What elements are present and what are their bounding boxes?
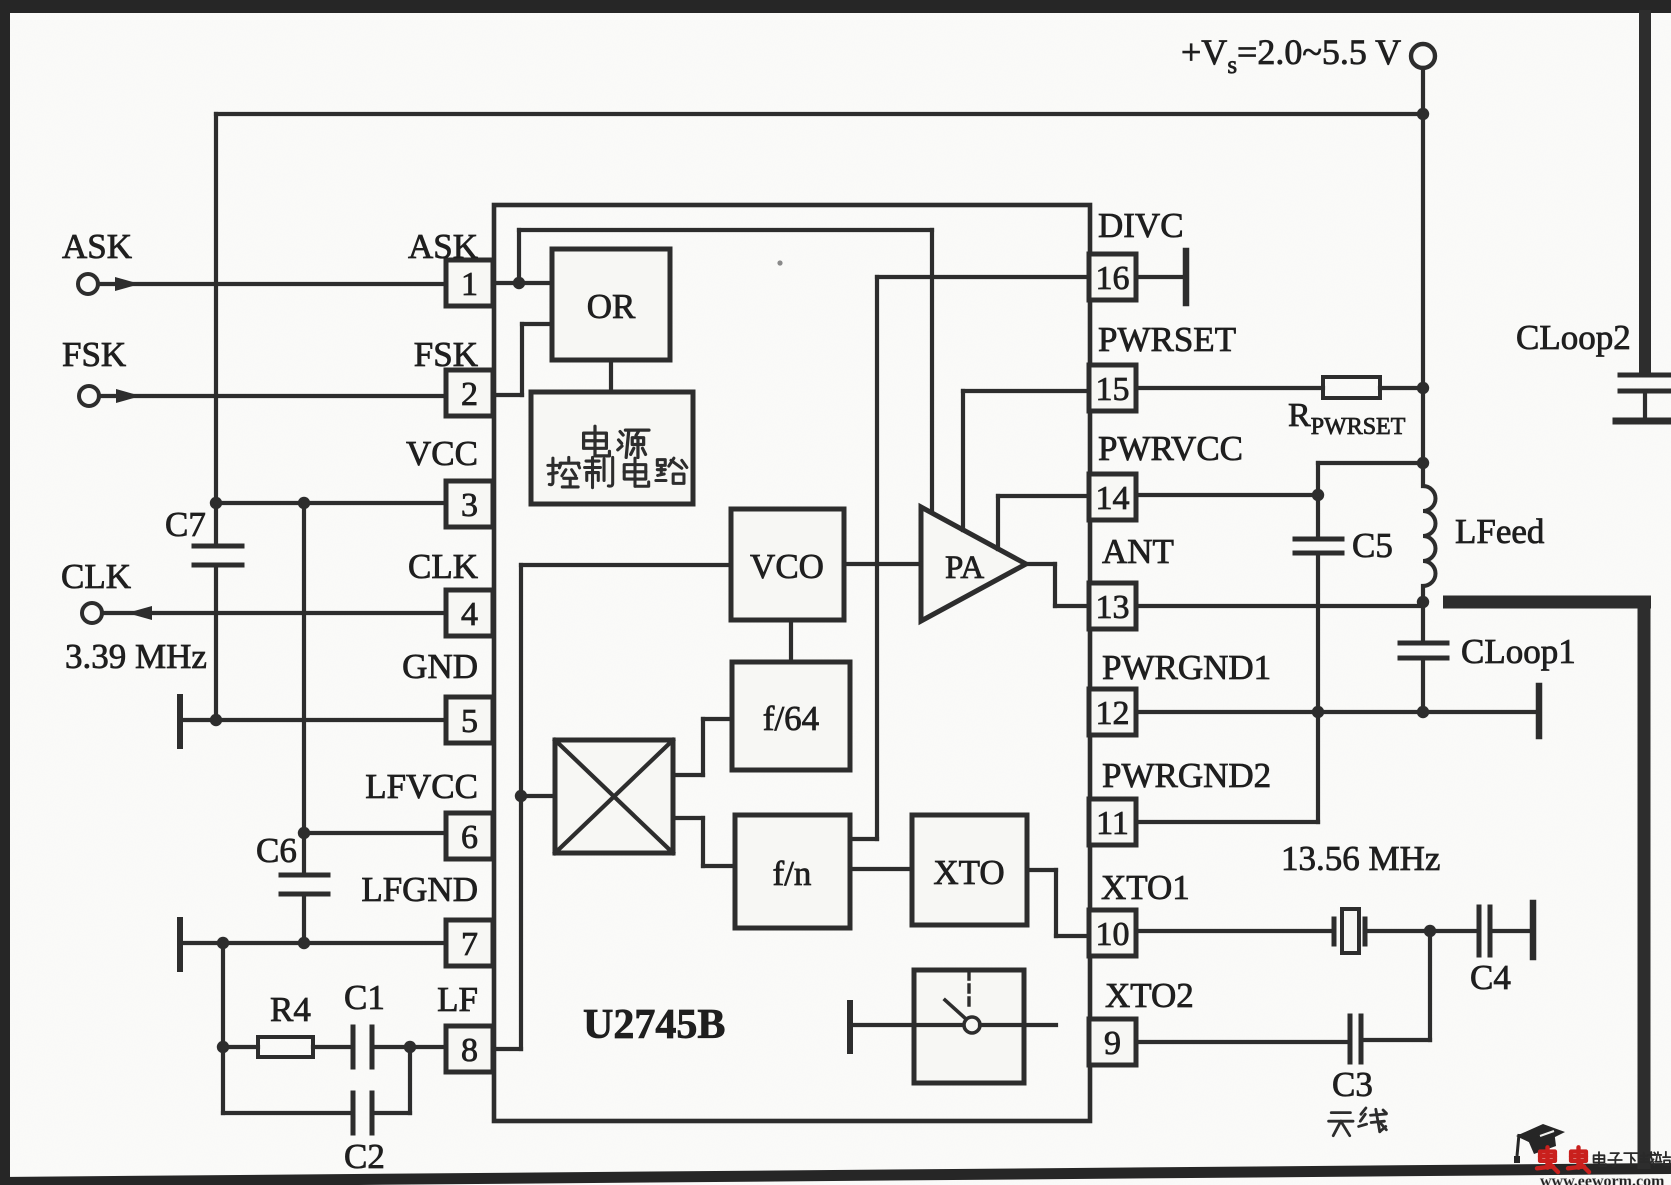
svg-text:PWRVCC: PWRVCC [1098, 429, 1243, 468]
capacitor C6 [281, 873, 328, 878]
svg-text:14: 14 [1096, 480, 1130, 517]
wire VCC rail pin3 [216, 501, 446, 505]
ground bar C4 [1530, 903, 1537, 957]
svg-text:LF: LF [437, 980, 478, 1019]
capacitor C4 [1430, 929, 1479, 933]
svg-text:PWRGND1: PWRGND1 [1102, 648, 1271, 687]
svg-text:5: 5 [461, 703, 478, 740]
wire supply rail left riser to VCC [214, 114, 218, 546]
wire PA output to pin13 ANT [1026, 562, 1055, 566]
wire pin14 PWRVCC to PA [998, 494, 1089, 498]
wire XTO to pin10 XTO1 [1027, 868, 1056, 872]
svg-text:LFGND: LFGND [361, 870, 478, 909]
svg-text:CLoop1: CLoop1 [1461, 632, 1576, 671]
svg-text:11: 11 [1096, 805, 1129, 842]
wire f/n to pin16 DIVC [850, 837, 877, 841]
svg-text:ASK: ASK [62, 227, 132, 266]
resistor RPWRSET [1323, 377, 1380, 398]
svg-text:CLK: CLK [61, 557, 131, 596]
capacitor C5 [1318, 461, 1423, 465]
wire VCO to PA [844, 562, 921, 566]
wire pin12 ground run [1136, 710, 1539, 714]
wire ASK internal riser to PA [517, 230, 521, 283]
wire mixer to f/n [673, 816, 703, 820]
capacitor CLoop2 [1620, 373, 1671, 378]
wire supply column [1421, 114, 1425, 486]
divider f/n box [735, 815, 850, 928]
antenna label tianxian [1329, 1113, 1353, 1136]
wire thick antenna loop right [1638, 602, 1651, 1169]
pin 15 box [1089, 365, 1136, 411]
wire thick antenna loop top [1443, 596, 1651, 609]
watermark logo graduation cap [1516, 1124, 1565, 1146]
wire mixer to f/64 [673, 773, 703, 777]
wire pin7 to loop filter [221, 943, 225, 1047]
pin 9 box [1089, 1019, 1136, 1065]
pin 10 box [1089, 910, 1136, 956]
arrow FSK direction [116, 389, 141, 403]
switch contact [964, 1017, 980, 1033]
wire ASK to pin 1 [98, 282, 446, 286]
pin 4 box [446, 590, 493, 636]
svg-text:C3: C3 [1332, 1065, 1373, 1104]
svg-text:PA: PA [945, 550, 984, 586]
capacitor C2 [221, 1047, 225, 1113]
svg-text:8: 8 [461, 1032, 478, 1069]
crystal 13.56 MHz [1332, 919, 1337, 944]
svg-text:3: 3 [461, 487, 478, 524]
svg-text:3.39 MHz: 3.39 MHz [65, 637, 207, 676]
watermark chongchong red characters [1537, 1147, 1558, 1172]
svg-text:PWRGND2: PWRGND2 [1102, 756, 1271, 795]
wire pin16 DIVC stub [1136, 275, 1184, 279]
wire GND pin5 [180, 718, 446, 722]
border frame bottom [0, 1163, 1671, 1185]
pin 14 box [1089, 474, 1136, 520]
pin 6 box [446, 813, 493, 859]
pin 2 box [446, 370, 493, 416]
pin 12 box [1089, 689, 1136, 735]
svg-text:LFVCC: LFVCC [365, 767, 478, 806]
oscillator VCO box [731, 509, 844, 620]
svg-text:XTO: XTO [933, 853, 1004, 892]
svg-text:PWRSET: PWRSET [1098, 320, 1236, 359]
power control circuit box (dianyuan kongzhi dianlu) [531, 392, 693, 504]
svg-text:www.eeworm.com: www.eeworm.com [1540, 1173, 1665, 1185]
svg-text:ASK: ASK [408, 227, 478, 266]
wire pin13 ANT to loop [1136, 604, 1423, 608]
svg-text:XTO2: XTO2 [1105, 976, 1194, 1015]
ground bar pin5 [177, 697, 183, 746]
svg-text:16: 16 [1096, 260, 1130, 297]
wire pin10 to crystal [1136, 929, 1334, 933]
svg-text:13.56 MHz: 13.56 MHz [1281, 839, 1440, 878]
wire LFVCC column [302, 503, 306, 875]
inductor LFeed [1423, 486, 1436, 586]
divider f/64 box [732, 662, 850, 770]
wire pin15 PWRSET to PA [963, 389, 1089, 393]
capacitor C1 [313, 1045, 353, 1049]
svg-text:6: 6 [461, 819, 478, 856]
svg-text:FSK: FSK [62, 335, 126, 374]
mixer (phase detector) box [555, 740, 673, 853]
wire LFVCC pin6 [304, 831, 446, 835]
svg-text:LFeed: LFeed [1455, 512, 1545, 551]
pin 16 box [1089, 254, 1136, 300]
wire pin1 to OR gate [493, 281, 552, 285]
svg-text:4: 4 [461, 596, 478, 633]
CLoop2 end bar [1616, 418, 1671, 425]
op IC U2745B body [494, 205, 1090, 1121]
border frame top [0, 0, 1671, 13]
svg-text:1: 1 [461, 266, 478, 303]
amplifier PA triangle [921, 507, 1026, 621]
pin 7 box [446, 920, 493, 966]
svg-text:GND: GND [402, 647, 478, 686]
wire +Vs terminal drop [1421, 68, 1425, 114]
pin 8 box [446, 1026, 493, 1072]
wire VCO to f/64 [789, 620, 793, 662]
svg-text:C4: C4 [1470, 958, 1511, 997]
pin 1 box [446, 260, 493, 306]
wire pin11 riser [1136, 820, 1318, 824]
svg-text:9: 9 [1104, 1025, 1121, 1062]
border frame left [0, 0, 10, 1185]
svg-text:VCC: VCC [406, 434, 478, 473]
svg-text:C1: C1 [344, 978, 385, 1017]
svg-text:10: 10 [1096, 916, 1130, 953]
svg-text:13: 13 [1096, 589, 1130, 626]
watermark site name characters [1594, 1152, 1606, 1166]
switch box (mode select) [914, 970, 1024, 1083]
wire FSK to pin 2 [99, 394, 446, 398]
svg-text:C2: C2 [344, 1137, 385, 1176]
ground bar DIVC [1183, 251, 1190, 303]
wire crystal junction down to C3 [1428, 931, 1432, 1040]
wire LFGND pin7 [180, 941, 446, 945]
svg-text:XTO1: XTO1 [1101, 868, 1190, 907]
wire mixer tap [521, 794, 555, 798]
wire CLK from pin 4 [102, 611, 446, 615]
capacitor C7 [194, 544, 242, 549]
pin 11 box [1089, 799, 1136, 845]
switch left terminal bar [847, 1003, 853, 1051]
arrow ASK direction [115, 277, 140, 291]
ground bar pin7 [177, 920, 183, 969]
svg-text:2: 2 [461, 376, 478, 413]
svg-text:C7: C7 [165, 505, 206, 544]
svg-text:C5: C5 [1352, 526, 1393, 565]
svg-text:12: 12 [1096, 695, 1130, 732]
svg-text:DIVC: DIVC [1098, 206, 1184, 245]
svg-text:15: 15 [1096, 371, 1130, 408]
oscillator XTO box [912, 815, 1027, 925]
wire f/n to XTO [850, 867, 912, 871]
pin 3 box [446, 481, 493, 527]
wire into switch [850, 1023, 963, 1027]
svg-text:OR: OR [587, 287, 636, 326]
svg-text:CLoop2: CLoop2 [1516, 318, 1631, 357]
svg-text:f/n: f/n [773, 854, 812, 893]
wire pin15 to RPWRSET [1136, 386, 1323, 390]
pin 13 box [1089, 583, 1136, 629]
logic OR gate box [552, 249, 670, 360]
svg-text:FSK: FSK [414, 335, 478, 374]
svg-text:R4: R4 [270, 990, 311, 1029]
svg-text:+Vs=2.0~5.5 V: +Vs=2.0~5.5 V [1181, 32, 1401, 79]
resistor R4 [223, 1045, 258, 1049]
wire pin14 to C5 [1136, 493, 1318, 497]
wire CLoop2 feed from frame [1639, 10, 1651, 373]
pin 5 box [446, 697, 493, 743]
wire OR to power control [609, 360, 613, 392]
svg-text:VCO: VCO [750, 547, 824, 586]
svg-text:7: 7 [461, 926, 478, 963]
capacitor CLoop1 [1421, 602, 1425, 643]
svg-text:C6: C6 [256, 831, 297, 870]
capacitor C3 [1348, 1016, 1353, 1062]
svg-text:CLK: CLK [408, 547, 478, 586]
ground bar CLoop1 [1536, 686, 1543, 736]
arrow CLK direction [127, 606, 152, 620]
wire top supply rail [216, 112, 1423, 116]
svg-text:U2745B: U2745B [583, 1002, 725, 1048]
svg-text:f/64: f/64 [763, 699, 819, 738]
wire LF pin8 internal riser to VCO [494, 1047, 521, 1051]
wire pin2 to OR gate [493, 393, 522, 397]
wire switch output [980, 1023, 1056, 1027]
svg-text:ANT: ANT [1102, 532, 1174, 571]
switch control dashed line [967, 972, 970, 1006]
